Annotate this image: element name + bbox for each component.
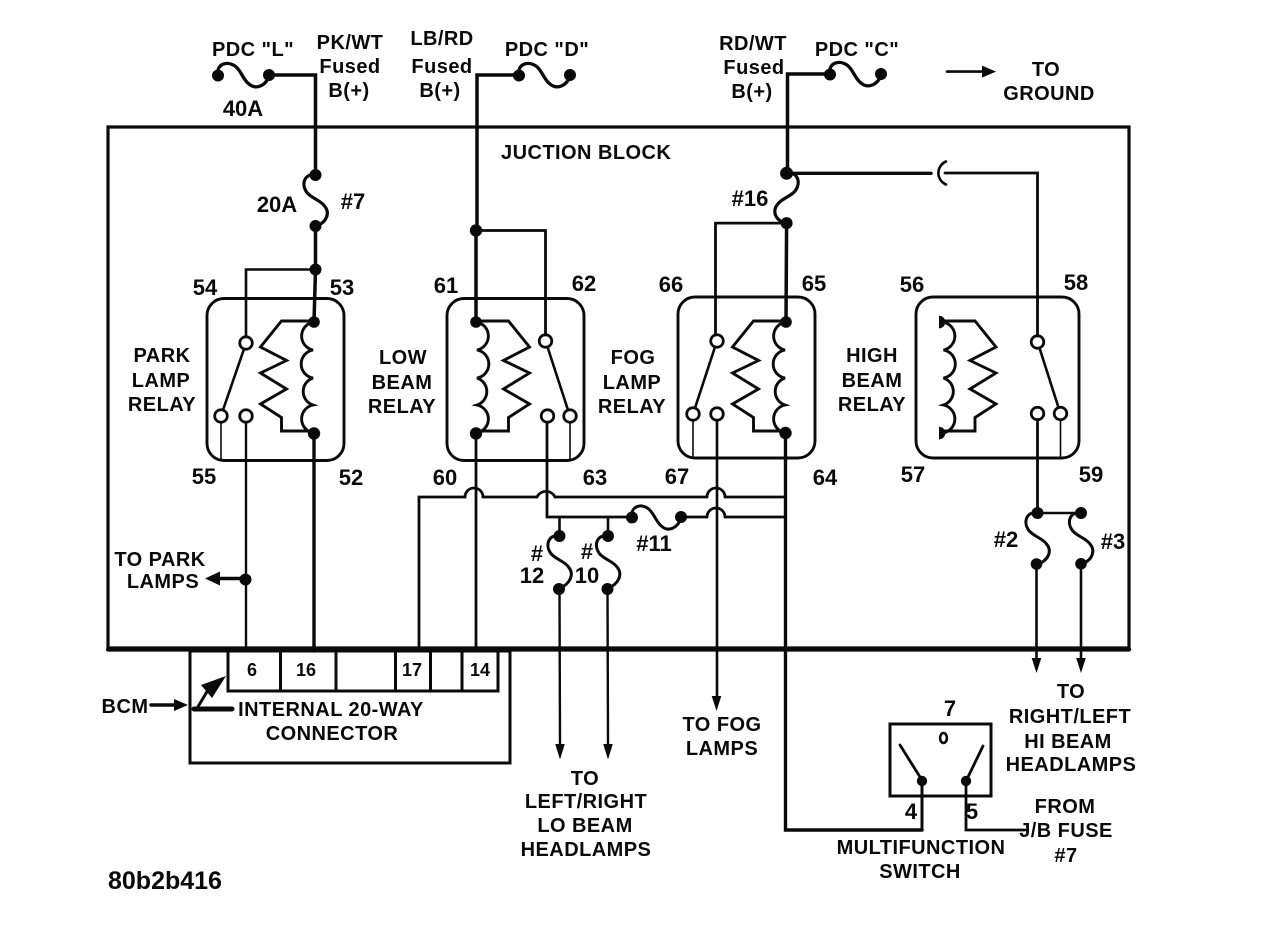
wire PDC D fuse to junction block entry xyxy=(477,75,519,231)
low pin 62 stub xyxy=(569,422,571,459)
high pin 59 stub xyxy=(1060,420,1062,457)
wire fuse 3 to hi beam arrow xyxy=(1080,563,1083,659)
arrow to fog lamps xyxy=(712,696,722,711)
multifunction switch right contact xyxy=(961,746,983,786)
svg-text:52: 52 xyxy=(339,465,363,490)
svg-text:HEADLAMPS: HEADLAMPS xyxy=(521,839,652,861)
svg-text:LAMPS: LAMPS xyxy=(686,738,758,760)
node to park lamps tap xyxy=(240,574,252,586)
wire pin 4 down to relay feed xyxy=(921,781,924,830)
wire fuse 2 to fuse 3 top xyxy=(1038,512,1082,515)
wire fuse 16 node to fog pin 66 xyxy=(716,223,787,335)
arrow BCM to connector xyxy=(151,699,188,711)
wire fuse 7 to park relay node xyxy=(314,226,318,270)
svg-text:12: 12 xyxy=(520,563,544,588)
svg-text:7: 7 xyxy=(944,696,956,721)
svg-text:JUCTION BLOCK: JUCTION BLOCK xyxy=(501,142,671,164)
svg-text:RELAY: RELAY xyxy=(838,394,906,416)
svg-text:MULTIFUNCTION: MULTIFUNCTION xyxy=(837,837,1006,859)
fog relay coil xyxy=(733,316,792,439)
park pin 55 stub xyxy=(220,422,222,459)
svg-text:56: 56 xyxy=(900,272,924,297)
label MULTIFUNCTION SWITCH xyxy=(837,837,1006,883)
hop over fog switch wire lower xyxy=(707,508,725,517)
svg-text:53: 53 xyxy=(330,275,354,300)
fuse #11 xyxy=(626,506,687,529)
svg-text:20A: 20A xyxy=(257,192,297,217)
wire high switch down to fuses xyxy=(1036,420,1039,514)
svg-text:PARK: PARK xyxy=(134,345,191,367)
svg-text:LO BEAM: LO BEAM xyxy=(537,815,632,837)
label #10 xyxy=(575,539,599,588)
svg-text:63: 63 xyxy=(583,465,607,490)
relay U2 low beam relay box xyxy=(447,299,584,461)
park relay coil xyxy=(261,316,321,439)
node low beam feed xyxy=(470,224,482,236)
svg-text:LEFT/RIGHT: LEFT/RIGHT xyxy=(525,791,647,813)
fog relay switch xyxy=(687,335,724,421)
svg-text:RELAY: RELAY xyxy=(128,394,196,416)
wire fog coil pin 64 down xyxy=(786,433,923,830)
relay U3 fog lamp relay box xyxy=(678,297,815,458)
svg-text:58: 58 xyxy=(1064,270,1088,295)
pointer arrow to cells xyxy=(194,676,232,710)
svg-text:66: 66 xyxy=(659,272,683,297)
fuse PDC "D" xyxy=(513,63,576,86)
wire fuse 16 node to fog pin 65 xyxy=(784,223,788,322)
svg-text:FOG: FOG xyxy=(611,347,656,369)
svg-text:65: 65 xyxy=(802,271,826,296)
svg-text:RD/WT: RD/WT xyxy=(719,33,787,55)
relay U4 high beam relay box xyxy=(916,297,1079,458)
low beam relay switch xyxy=(539,335,576,423)
svg-text:HEADLAMPS: HEADLAMPS xyxy=(1006,754,1137,776)
svg-text:INTERNAL 20-WAY: INTERNAL 20-WAY xyxy=(238,699,424,721)
svg-text:PDC "D": PDC "D" xyxy=(505,39,589,61)
svg-text:59: 59 xyxy=(1079,462,1103,487)
arrow right lo beam xyxy=(603,744,613,760)
wire fog switch down to fog lamps xyxy=(716,420,719,697)
wire node to park pin 53 xyxy=(314,270,316,323)
svg-text:PDC "L": PDC "L" xyxy=(212,39,294,61)
wire low coil pin 60 to connector 14 xyxy=(475,434,478,652)
svg-text:SWITCH: SWITCH xyxy=(879,861,961,883)
relay U1 park lamp relay box xyxy=(207,299,344,461)
svg-text:5: 5 xyxy=(966,799,978,824)
wire node to park pin 54 xyxy=(246,270,316,338)
svg-text:HI BEAM: HI BEAM xyxy=(1024,731,1112,753)
svg-text:B(+): B(+) xyxy=(328,80,369,102)
svg-text:#7: #7 xyxy=(341,189,365,214)
wire fuse 12 to lo beam headlamps arrow xyxy=(558,589,561,744)
arrow to ground xyxy=(947,66,996,78)
high beam relay coil xyxy=(939,316,996,440)
svg-text:#: # xyxy=(581,539,593,564)
svg-text:BCM: BCM xyxy=(102,696,149,718)
svg-text:6: 6 xyxy=(247,660,257,680)
high beam relay switch xyxy=(1031,336,1067,420)
svg-text:LB/RD: LB/RD xyxy=(410,28,473,50)
label TO RIGHT/LEFT HI BEAM HEADLAMPS xyxy=(1006,681,1137,776)
junction block outline xyxy=(108,127,1129,650)
svg-text:TO: TO xyxy=(1057,681,1085,703)
svg-text:55: 55 xyxy=(192,464,216,489)
wire ground bus to high beam pin 58 with inline connector xyxy=(787,162,1038,337)
label HIGH BEAM RELAY xyxy=(838,345,906,416)
wire pin 5 to jb fuse xyxy=(966,781,1025,830)
bus line from low pin 63 xyxy=(547,422,786,517)
internal 20-way connector box xyxy=(190,651,510,763)
svg-text:#11: #11 xyxy=(636,531,672,556)
fuse PDC "C" xyxy=(824,62,887,85)
svg-text:10: 10 xyxy=(575,563,599,588)
label PK/WT Fused B(+) xyxy=(317,32,384,102)
svg-text:FROM: FROM xyxy=(1035,796,1096,818)
node park relay feed xyxy=(310,264,322,276)
svg-text:14: 14 xyxy=(470,660,490,680)
arrow left lo beam xyxy=(555,744,565,760)
svg-text:64: 64 xyxy=(813,465,838,490)
svg-text:57: 57 xyxy=(901,462,925,487)
svg-text:BEAM: BEAM xyxy=(842,370,903,392)
svg-text:J/B FUSE: J/B FUSE xyxy=(1019,820,1113,842)
svg-text:Fused: Fused xyxy=(411,56,472,78)
arrow to park lamps xyxy=(205,572,243,586)
svg-text:LAMP: LAMP xyxy=(132,370,190,392)
svg-text:67: 67 xyxy=(665,464,689,489)
svg-text:#16: #16 xyxy=(732,186,769,211)
wire park switch to connector 6 xyxy=(245,422,247,651)
svg-text:Fused: Fused xyxy=(319,56,380,78)
multifunction switch box xyxy=(890,724,991,796)
fuse #16 xyxy=(775,167,798,229)
svg-text:B(+): B(+) xyxy=(419,80,460,102)
label LB/RD Fused B(+) xyxy=(410,28,473,102)
svg-text:LAMPS: LAMPS xyxy=(127,571,199,593)
svg-text:4: 4 xyxy=(905,799,918,824)
svg-text:#2: #2 xyxy=(994,527,1018,552)
connector cells row xyxy=(228,651,498,691)
svg-text:LOW: LOW xyxy=(379,347,427,369)
svg-text:54: 54 xyxy=(193,275,218,300)
bus line from connector 17 xyxy=(419,497,786,651)
svg-text:CONNECTOR: CONNECTOR xyxy=(266,723,399,745)
fuse #3 xyxy=(1069,507,1092,570)
wire node to low pin 62 xyxy=(476,231,546,336)
svg-text:TO: TO xyxy=(571,768,599,790)
svg-text:RIGHT/LEFT: RIGHT/LEFT xyxy=(1009,706,1131,728)
svg-text:40A: 40A xyxy=(223,96,263,121)
label TO FOG LAMPS xyxy=(683,714,762,760)
svg-text:#3: #3 xyxy=(1101,529,1125,554)
svg-text:62: 62 xyxy=(572,271,596,296)
fog pin 67 stub xyxy=(692,420,694,456)
hop over pin 63 wire xyxy=(537,491,555,497)
label LOW BEAM RELAY xyxy=(368,347,436,418)
fuse 20A #7 xyxy=(304,169,327,232)
multifunction switch pivot mark xyxy=(940,733,947,743)
wire fuse 10 to lo beam headlamps arrow xyxy=(606,589,609,744)
svg-text:#7: #7 xyxy=(1054,845,1077,867)
fuse #12 xyxy=(548,530,571,595)
svg-text:16: 16 xyxy=(296,660,316,680)
fuse #12 tap stub xyxy=(558,517,561,535)
wire PDC L fuse to junction block entry xyxy=(269,75,316,175)
park relay switch xyxy=(215,337,253,423)
svg-text:TO PARK: TO PARK xyxy=(114,549,205,571)
svg-text:RELAY: RELAY xyxy=(368,396,436,418)
fuse #10 xyxy=(596,530,619,595)
label RD/WT Fused B(+) xyxy=(719,33,787,103)
svg-text:TO FOG: TO FOG xyxy=(683,714,762,736)
svg-text:60: 60 xyxy=(433,465,457,490)
svg-text:PK/WT: PK/WT xyxy=(317,32,384,54)
label PARK LAMP RELAY xyxy=(128,345,196,416)
wire node to low pin 61 xyxy=(474,231,478,323)
hop over pin 60 wire xyxy=(465,488,483,497)
label #12 xyxy=(520,541,544,588)
wire park coil pin 52 to connector 16 xyxy=(312,434,315,652)
svg-text:LAMP: LAMP xyxy=(603,372,661,394)
svg-text:Fused: Fused xyxy=(723,57,784,79)
label FOG LAMP RELAY xyxy=(598,347,666,418)
label TO LEFT/RIGHT LO BEAM HEADLAMPS xyxy=(521,768,652,861)
svg-text:61: 61 xyxy=(434,273,458,298)
arrow hi beam right xyxy=(1076,658,1086,673)
multifunction switch left contact xyxy=(900,745,927,786)
svg-text:B(+): B(+) xyxy=(731,81,772,103)
svg-text:TO: TO xyxy=(1032,59,1060,81)
fuse #10 tap stub xyxy=(607,517,610,535)
svg-text:GROUND: GROUND xyxy=(1003,83,1095,105)
fuse #2 xyxy=(1026,507,1049,570)
arrow hi beam left xyxy=(1032,658,1042,673)
label FROM J/B FUSE #7 xyxy=(1019,796,1113,867)
label TO GROUND xyxy=(1003,59,1095,105)
low beam relay coil xyxy=(470,316,530,439)
svg-text:80b2b416: 80b2b416 xyxy=(108,867,222,895)
svg-text:HIGH: HIGH xyxy=(846,345,898,367)
svg-text:PDC "C": PDC "C" xyxy=(815,39,899,61)
wire PDC C fuse to junction block entry xyxy=(788,74,831,173)
wire fuse 2 to hi beam arrow xyxy=(1035,564,1038,659)
svg-text:BEAM: BEAM xyxy=(372,372,433,394)
label TO PARK LAMPS xyxy=(114,549,205,593)
fuse PDC "L" 40A xyxy=(212,63,275,86)
svg-text:17: 17 xyxy=(402,660,422,680)
hop over fog switch wire xyxy=(707,488,725,497)
svg-text:RELAY: RELAY xyxy=(598,396,666,418)
